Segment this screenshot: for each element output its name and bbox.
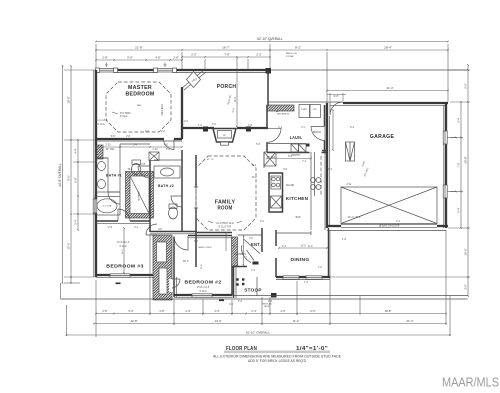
door bedroom3 [118,209,130,221]
window bedroom2 [192,294,212,297]
extension line [95,44,97,70]
svg-text:5'-0": 5'-0" [310,309,315,313]
extension line bottom i [329,230,331,325]
stoop post [236,283,238,285]
dimension line right tier2 [460,102,462,228]
wall porch front left [182,127,214,129]
svg-text:KITCHEN: KITCHEN [286,196,309,202]
svg-text:42" VAN: 42" VAN [106,148,115,151]
extension line [447,44,449,102]
garage door sill a [341,223,437,225]
svg-text:STONE: STONE [286,56,294,58]
svg-text:3'-11: 3'-11 [347,184,353,186]
shower inner [130,176,149,214]
wall garage bottom right stub [437,225,448,227]
svg-text:4'-4": 4'-4" [74,148,78,153]
svg-text:14'-0 x 11'-2: 14'-0 x 11'-2 [117,242,130,244]
door laundry left [267,128,281,142]
bath1 sink2 [98,180,106,189]
wall stoop left [233,266,235,298]
svg-text:16'-7": 16'-7" [222,45,230,49]
walk ext left [60,283,62,299]
svg-text:W.I.C.: W.I.C. [183,261,190,263]
wall garage right [445,103,447,228]
svg-text:SHELF & ROD: SHELF & ROD [198,247,212,249]
svg-text:6'-8": 6'-8" [74,177,78,182]
wall porch diagonal a [182,70,204,88]
door hall [138,166,150,178]
svg-text:BEDROOM #2: BEDROOM #2 [185,280,222,286]
wall bath1 right [119,144,121,196]
svg-text:FAN: FAN [137,104,141,107]
extension line bottom j [359,296,361,315]
fireplace insert [218,131,232,139]
extension line right win2 [450,191,463,193]
wall porch front right [237,127,268,129]
dimension line top tier2 [96,49,448,51]
wall family left lower [195,208,197,231]
extension line right win1 [450,137,463,139]
svg-text:21'-4": 21'-4" [406,319,413,323]
svg-text:42" TV: 42" TV [207,159,214,161]
wall laundry left upper [266,105,268,128]
wall ent right [261,228,263,252]
chain bath hall [96,146,182,148]
column porch diamond [187,72,201,88]
svg-text:3'-8": 3'-8" [159,309,164,313]
svg-text:5'-4": 5'-4" [457,117,461,122]
fridge box [264,152,276,166]
svg-text:14'-0": 14'-0" [214,319,221,323]
island sink [271,196,282,208]
door laundry right [311,127,325,141]
bath2 top [154,159,182,161]
wall bath2 right [181,150,183,231]
walk line upper [232,295,468,297]
dimension line bottom tier2 [94,323,446,325]
tub [97,199,117,213]
counter edge b [314,152,316,196]
cooktop circles [311,178,316,183]
svg-text:2'-8": 2'-8" [173,55,179,59]
extension line bottom right overall [449,296,451,336]
extension line left bottom [64,276,96,278]
wall bath2 left [149,160,151,221]
dimension line overall right [467,65,469,296]
svg-text:MUD BENCH: MUD BENCH [277,114,290,116]
wall hall bottom [150,231,197,233]
tray ceiling master octagon [106,82,171,132]
extension window b [164,63,166,68]
svg-text:12'-8: 12'-8 [201,264,203,270]
door garage side [330,102,343,115]
closet hatch complex [153,235,172,300]
stoop post [242,283,244,285]
wc toilet [132,164,141,175]
ent hatched wall [232,237,238,266]
fireplace firebox [213,129,236,143]
porch post [203,127,208,132]
extension line [326,52,328,103]
dimension line left tier2 [70,66,72,283]
stoop post [236,278,238,280]
svg-text:2'-8": 2'-8" [102,55,108,59]
svg-text:ADD 5" FOR BRICK LEDGE AS REQ': ADD 5" FOR BRICK LEDGE AS REQ'D [248,359,307,363]
wall garage bottom left stub [327,225,341,227]
svg-text:4'-4": 4'-4" [185,309,190,313]
column porch right [266,68,272,74]
laundry wall stub [306,144,310,147]
svg-text:5'-8": 5'-8" [111,136,116,138]
bath1 vanity [96,158,108,192]
garage door sill b [341,226,437,228]
ent threshold [253,262,259,265]
svg-text:18'-8": 18'-8" [385,309,392,313]
svg-text:LIN: LIN [158,229,162,231]
laundry counter line [267,143,306,145]
kitchen upper cabinets dashed [320,156,322,196]
svg-text:3'-0": 3'-0" [464,284,468,290]
tub surround [95,197,120,216]
svg-text:LAUN.: LAUN. [290,135,303,140]
svg-text:1/4"=1'-0": 1/4"=1'-0" [296,346,328,352]
closet inner bedroom3 [157,242,167,262]
wall dining left upper [275,230,277,246]
svg-text:12'-4: 12'-4 [235,97,237,103]
svg-text:62'-10" OVERALL: 62'-10" OVERALL [246,331,270,335]
svg-text:9' CLG: 9' CLG [97,124,104,126]
svg-text:5'-4": 5'-4" [457,207,461,212]
bath1 vanity top [96,157,108,159]
wc top line [120,143,150,145]
svg-text:2'-8": 2'-8" [102,309,107,313]
extension line bottom left overall [66,305,68,336]
front door leaf [244,239,261,254]
extension line bottom f [261,297,263,325]
dimension line top tier3 porch [182,56,270,58]
svg-text:BEDROOM #3: BEDROOM #3 [106,263,144,269]
svg-text:2'-2": 2'-2" [256,52,262,56]
svg-text:7'-0": 7'-0" [457,162,461,167]
dining wall extension right [330,276,466,278]
window rear wall [99,69,114,73]
svg-text:BEDROOM: BEDROOM [126,91,155,97]
wall porch right [267,70,269,105]
wall bedroom3 bottom a [96,274,110,276]
wall dining bottom a [276,276,283,278]
svg-text:13'-8 x 11'-0: 13'-8 x 11'-0 [197,287,210,289]
svg-text:20'-4 x 20'-8: 20'-4 x 20'-8 [348,217,361,219]
window garage right [443,185,447,198]
window bedroom3 [110,274,130,277]
stoop post [242,278,244,280]
wall dining left lower [275,258,277,277]
window dining [306,276,322,279]
wall bedroom2 left [173,237,175,297]
extension line bottom d [202,299,204,315]
linen cabinet [149,152,159,161]
svg-text:21'-8": 21'-8" [135,45,143,49]
svg-text:BENCH: BENCH [313,132,321,134]
dryer box [299,144,307,152]
mud bench hatched wall [267,105,294,111]
front door arc [241,246,251,263]
ent top line [238,234,263,236]
extension line right top [448,69,470,71]
wall garage left [326,103,328,228]
svg-text:STOOP: STOOP [244,288,262,294]
cubby box 2 [310,105,321,118]
door mark front [271,293,277,298]
dimension line bottom tier3 [67,334,451,336]
washer box [291,144,299,152]
wall bedroom3 top b [130,220,150,222]
wall left side [95,70,97,277]
svg-text:DINING: DINING [291,257,310,263]
chain ent vertical [243,236,245,265]
svg-text:PORCH: PORCH [217,84,237,90]
svg-text:GARAGE: GARAGE [370,134,395,140]
title underline bar [224,351,330,354]
front door leaf2 [247,250,255,261]
svg-text:9' CLG: 9' CLG [119,246,126,248]
chain dining [279,247,327,249]
svg-text:12'-8": 12'-8" [130,319,137,323]
svg-text:2'-2": 2'-2" [191,52,197,56]
dimension line left tier3 [77,140,79,230]
linen hatch [96,145,103,159]
wall dining right [328,228,330,277]
svg-text:FLOOR PLAN: FLOOR PLAN [226,346,257,352]
wall laundry left lower [266,142,268,152]
chain kitchen [267,158,311,160]
svg-text:CUBBY: CUBBY [301,109,308,111]
extension line [73,161,95,163]
wall family left upper [195,155,197,187]
dimension line top tier3 left [96,59,182,61]
svg-text:ENT.: ENT. [251,242,261,247]
svg-text:BAR: BAR [296,216,301,219]
extension line right garage bottom [448,227,470,229]
door master bedroom [164,139,175,150]
svg-text:4'-0": 4'-0" [280,309,285,313]
dimension line garage width [327,90,448,92]
svg-text:MAAR/MLS: MAAR/MLS [442,376,499,390]
shower hatched [126,172,154,219]
door closet top [146,224,157,235]
svg-text:21'-4": 21'-4" [386,86,393,90]
roof line rear right [268,69,468,71]
closet inner bedroom2 [159,268,167,294]
counter edge a [310,152,312,230]
extension line bottom c [173,299,175,325]
svg-text:9' CLG.: 9' CLG. [120,115,128,118]
wall bedroom3 top a [96,220,118,222]
window garage right [443,131,447,144]
svg-text:9' CLG TYP.: 9' CLG TYP. [219,226,232,229]
svg-text:BATH #1: BATH #1 [106,174,122,178]
svg-text:4'-4": 4'-4" [214,309,219,313]
svg-text:11'-0: 11'-0 [301,246,307,248]
svg-text:9' CLG: 9' CLG [199,291,206,293]
wall garage top [330,102,448,104]
wall family to ent [197,232,232,234]
svg-text:44'-8" OVERALL: 44'-8" OVERALL [58,163,62,187]
chain porch vertical [236,57,238,127]
garage apron line [327,230,446,232]
chain bedroom3 vertical [123,228,125,273]
garage door X diagonals [341,187,437,224]
extension porch a [204,59,206,70]
window left tub [93,199,97,213]
island range [271,176,281,189]
dimension line overall left [62,66,64,283]
wall rear top [96,69,268,71]
svg-text:2'-4": 2'-4" [251,309,256,313]
window rear wall [157,69,173,73]
wall master bottom right [174,138,182,140]
kitchen dining boundary [276,232,311,234]
extension line [181,52,183,70]
svg-text:9'-6": 9'-6" [67,175,71,181]
svg-text:SHOWER: SHOWER [139,191,141,201]
bath1 sink1 [98,162,106,171]
wall left of ent hall [195,232,197,267]
bath2 vanity [154,166,180,178]
wall master bottom left [96,138,164,140]
fireplace hearth [221,142,229,145]
svg-text:11'-4": 11'-4" [293,319,300,323]
door bedroom2 [174,236,188,250]
extension line bottom g [269,297,271,315]
attic access box [346,142,355,161]
svg-text:MASTER: MASTER [128,85,152,91]
svg-text:6'-0 TUB: 6'-0 TUB [103,206,112,208]
wall bedroom2 bottom b [212,294,232,296]
svg-text:10'-2: 10'-2 [251,177,257,179]
extension line bottom k [445,230,447,325]
svg-text:3'-4": 3'-4" [74,219,78,224]
svg-text:4'-8": 4'-8" [155,55,161,59]
chain garage [332,110,334,150]
extension line right garage top [450,101,470,103]
svg-text:BATH #2: BATH #2 [158,184,174,188]
wall laundry right upper [324,105,326,126]
cubby box 1 [299,105,310,118]
wall bedroom2 bottom a [174,294,192,296]
wall below ent hatch [232,266,247,268]
extension line right patio [466,276,470,278]
svg-text:9'-2": 9'-2" [295,45,301,49]
svg-text:28'-4": 28'-4" [384,45,392,49]
svg-text:ISLAND: ISLAND [286,184,295,187]
fridge nook [263,152,265,168]
window dining [283,276,299,279]
bath2 toilet [169,207,178,219]
garage door X box [341,187,437,224]
extension line left top [64,69,96,71]
extension line bottom h [296,281,298,315]
svg-text:5'-4": 5'-4" [128,309,133,313]
extension line bottom b [149,234,151,315]
svg-text:5'-8": 5'-8" [127,55,133,59]
extension porch b [247,59,249,70]
svg-text:7'-8": 7'-8" [224,52,230,56]
breezeway line [268,101,330,103]
svg-text:19'-8": 19'-8" [67,96,71,103]
svg-text:2'-6": 2'-6" [464,83,468,89]
wall laundry bottom b [322,152,328,154]
tray ceiling family octagon [196,156,256,230]
extension line bottom a [95,280,97,337]
extension line left overall bottom [64,282,80,284]
bath2 sink [161,168,174,176]
wall master-porch divider [181,87,183,139]
wall porch diagonal b [184,72,206,90]
wall bedroom3 bottom b [130,274,153,276]
door bath1 [108,192,120,204]
wall dining bottom b [299,276,306,278]
wall laundry bottom a [267,152,310,154]
stoop right edge [256,277,258,296]
svg-text:ROOM: ROOM [218,206,233,212]
svg-text:2'-10: 2'-10 [105,145,111,147]
svg-text:2'-10: 2'-10 [152,149,158,151]
extension line [73,213,95,215]
walk line lower [61,298,468,300]
shower diagonal [130,176,149,214]
dimension line overall top [96,41,448,43]
extension line left mid [64,139,96,141]
extension window a [106,63,108,68]
extension line [269,44,271,70]
wall laundry right lower [324,141,326,153]
svg-text:10'-0": 10'-0" [464,248,468,255]
door bath2 [171,196,182,207]
dimension line bottom tier1 [96,313,446,315]
svg-text:15'-6": 15'-6" [67,242,71,249]
svg-text:PANTRY: PANTRY [291,154,301,157]
svg-text:13 RISERS: 13 RISERS [234,254,246,256]
door closet bedroom2 [172,279,180,288]
svg-text:REQD: REQD [264,306,270,308]
kitchen island [269,173,283,212]
svg-text:15'-4 x 14'-8: 15'-4 x 14'-8 [95,120,108,122]
chain family to ent [225,233,227,251]
svg-text:TILE: TILE [128,169,133,171]
svg-text:BRICK OR: BRICK OR [286,53,297,55]
extension line bottom e [231,300,233,315]
porch post b [246,127,251,132]
svg-text:18'0x8'0 OH DOOR: 18'0x8'0 OH DOOR [379,225,400,228]
svg-text:KING BED: KING BED [161,104,164,116]
wall bedroom3 right upper [149,221,151,232]
wall dining bottom c [321,276,330,278]
wall kitchen right thin [324,105,326,230]
svg-text:11'-2: 11'-2 [122,249,124,254]
svg-text:20'-8": 20'-8" [464,156,468,163]
wall bedroom2 top [188,235,232,237]
family opening [195,187,197,208]
wall bedroom2 right [231,266,233,295]
